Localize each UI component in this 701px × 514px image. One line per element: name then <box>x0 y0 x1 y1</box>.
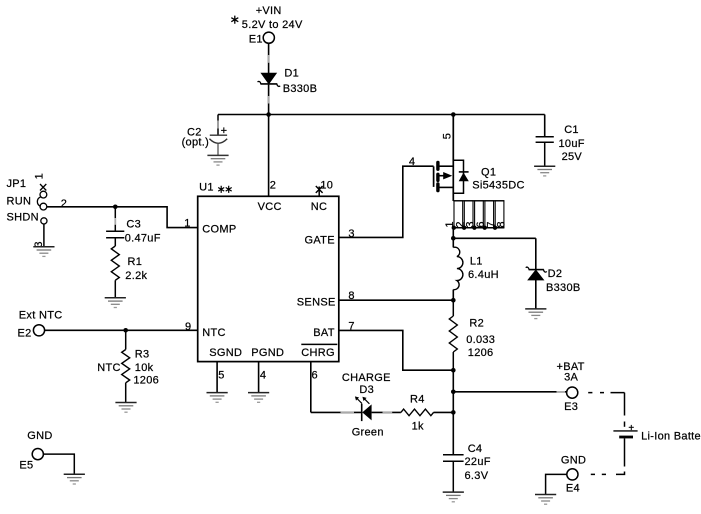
ground C2 <box>207 155 228 165</box>
wire BAT node down <box>452 370 454 412</box>
wire R2 to BAT node <box>452 352 454 370</box>
wire R4 to node <box>434 411 454 413</box>
pin circle 2 <box>40 203 47 210</box>
svg-text:U1: U1 <box>199 182 214 194</box>
svg-text:CHRG: CHRG <box>301 347 335 359</box>
resistor R4 <box>401 394 434 433</box>
svg-text:2.2k: 2.2k <box>125 270 147 282</box>
svg-text:E5: E5 <box>19 460 33 472</box>
wire D2 cathode stub <box>535 238 537 269</box>
node junction BAT <box>451 368 456 373</box>
svg-text:R4: R4 <box>410 394 425 406</box>
wire switch node to D2 <box>453 237 536 239</box>
wire sense node to R2 <box>452 300 454 316</box>
svg-text:9: 9 <box>185 321 191 333</box>
svg-text:VCC: VCC <box>258 201 282 213</box>
wire junction to R3 <box>125 330 127 349</box>
svg-text:6: 6 <box>312 370 318 382</box>
ground SGND <box>207 393 228 403</box>
node junction +BAT <box>451 390 456 395</box>
svg-text:5: 5 <box>441 133 453 139</box>
svg-text:7: 7 <box>348 320 354 332</box>
wire SENSE pin8 <box>339 299 454 301</box>
wire LED to R4 <box>372 411 401 413</box>
body arrow <box>439 175 444 177</box>
svg-text:R1: R1 <box>128 256 143 268</box>
gate bar <box>433 166 435 187</box>
svg-text:COMP: COMP <box>202 223 236 235</box>
svg-text:(opt.): (opt.) <box>182 136 209 148</box>
svg-text:1: 1 <box>34 173 46 179</box>
svg-text:CHARGE: CHARGE <box>342 372 391 384</box>
svg-text:6.4uH: 6.4uH <box>468 269 499 281</box>
wire E2 to NTC pin9 <box>45 329 198 331</box>
wire C3 to R1 <box>114 238 116 246</box>
note asterisk <box>231 16 238 24</box>
wire D2 anode to ground <box>535 280 537 309</box>
pin number labels fingers (rotated) <box>444 221 507 227</box>
ground R1 <box>105 298 126 308</box>
svg-text:Green: Green <box>352 426 384 438</box>
ground C4 <box>443 492 464 502</box>
wire rail corner to C2 <box>217 115 219 136</box>
svg-text:22uF: 22uF <box>465 456 491 468</box>
emission arrows <box>357 399 369 404</box>
main vertical source-drain line <box>452 115 454 202</box>
node +BAT label <box>557 361 585 384</box>
svg-text:B330B: B330B <box>546 282 581 294</box>
svg-text:+VIN: +VIN <box>256 5 282 17</box>
wire E3 dashed to battery <box>588 393 624 427</box>
svg-text:25V: 25V <box>562 151 583 163</box>
svg-text:2: 2 <box>61 198 67 210</box>
svg-text:0.033: 0.033 <box>466 334 495 346</box>
svg-text:RUN: RUN <box>7 195 32 207</box>
diode D1 <box>258 68 318 96</box>
drain connection <box>439 186 453 188</box>
body diode bracket <box>453 160 463 193</box>
svg-text:10uF: 10uF <box>559 138 585 150</box>
svg-text:5: 5 <box>218 369 224 381</box>
svg-text:3A: 3A <box>564 372 578 384</box>
wire E4 to ground <box>546 474 567 494</box>
svg-text:5.2V to 24V: 5.2V to 24V <box>242 19 303 31</box>
terminal E5 <box>19 449 43 472</box>
wire E1 to D1 <box>268 43 270 73</box>
svg-text:Si5435DC: Si5435DC <box>472 180 525 192</box>
wire R3 to ground <box>125 383 127 403</box>
capacitor C4 <box>443 443 491 482</box>
transistor Q1 <box>434 115 525 202</box>
no-connect X pin1 <box>40 184 46 191</box>
ground E4 <box>535 495 556 505</box>
wire RUN pin2 to COMP pin1 <box>47 207 198 228</box>
svg-text:1: 1 <box>184 217 190 229</box>
svg-text:C3: C3 <box>126 219 141 231</box>
wire +BAT <box>453 391 566 393</box>
svg-text:SHDN: SHDN <box>7 211 39 223</box>
wire R1 to ground <box>114 280 116 297</box>
wire SGND pin5 to ground <box>216 362 218 393</box>
capacitor C1 <box>536 124 585 163</box>
svg-text:D1: D1 <box>284 68 299 80</box>
svg-text:D2: D2 <box>548 268 563 280</box>
node junction switch node <box>451 236 456 241</box>
svg-text:+: + <box>628 423 634 434</box>
wire C1 to ground <box>544 142 546 166</box>
terminal E3 <box>564 387 578 413</box>
svg-text:E4: E4 <box>566 482 580 494</box>
battery Li-Ion <box>613 423 701 443</box>
svg-text:GND: GND <box>561 455 586 467</box>
svg-text:D3: D3 <box>359 384 374 396</box>
svg-text:C4: C4 <box>468 443 483 455</box>
terminal E1 <box>249 32 275 45</box>
jumper shunt arc <box>37 197 40 207</box>
svg-text:8: 8 <box>495 221 507 227</box>
pin circle 3 <box>41 218 47 224</box>
svg-text:B330B: B330B <box>283 83 318 95</box>
svg-text:E2: E2 <box>18 327 32 339</box>
diode D2 <box>526 267 581 294</box>
svg-text:GATE: GATE <box>305 235 335 247</box>
svg-text:6.3V: 6.3V <box>465 470 489 482</box>
svg-text:R3: R3 <box>135 349 150 361</box>
svg-text:L1: L1 <box>470 255 483 267</box>
wire E5 to ground <box>44 454 75 474</box>
svg-text:10: 10 <box>320 180 333 192</box>
svg-text:0.47uF: 0.47uF <box>125 232 161 244</box>
ground D2 <box>525 309 546 319</box>
terminal E4 <box>566 469 580 495</box>
terminal E2 <box>18 325 45 340</box>
no-connect X pin10 <box>316 186 323 193</box>
capacitor C2 <box>182 125 228 155</box>
svg-text:R2: R2 <box>469 318 484 330</box>
ground PGND <box>248 393 269 403</box>
svg-text:Li-Ion Battery: Li-Ion Battery <box>641 431 701 443</box>
svg-text:E1: E1 <box>249 33 263 45</box>
inductor L1 <box>453 238 499 300</box>
node junction E2/R3 <box>123 328 128 333</box>
ground C1 <box>534 166 555 176</box>
svg-text:BAT: BAT <box>313 327 334 339</box>
resistor R2 <box>449 316 495 359</box>
svg-text:Q1: Q1 <box>481 166 496 178</box>
svg-text:1206: 1206 <box>468 347 494 359</box>
pin 10 stub NC <box>318 187 320 197</box>
node junction rail/D1 <box>266 112 271 117</box>
wire GATE pin3 to Q1 gate <box>339 166 434 237</box>
svg-text:SENSE: SENSE <box>297 297 336 309</box>
svg-text:NC: NC <box>311 201 328 213</box>
svg-text:Ext NTC: Ext NTC <box>19 310 63 322</box>
wire VIN rail <box>218 114 545 116</box>
LED D3 <box>342 372 391 438</box>
svg-text:NTC: NTC <box>97 362 121 374</box>
wire drain to switch node <box>452 228 454 239</box>
wire C1 drop <box>544 115 546 137</box>
wire C4 to ground <box>452 461 454 492</box>
ground R3 <box>115 403 136 413</box>
wire CHRG pin6 <box>310 362 312 413</box>
wire VCC drop pin2 <box>268 115 270 197</box>
svg-text:8: 8 <box>348 290 354 302</box>
wire battery to E4 dashed <box>591 438 625 474</box>
svg-text:NTC: NTC <box>202 327 226 339</box>
svg-text:4: 4 <box>409 156 415 168</box>
Q1 drain finger pins <box>453 201 504 228</box>
connector JP1 <box>7 173 48 248</box>
svg-text:10k: 10k <box>135 362 154 374</box>
node junction rail/Q1 <box>451 112 456 117</box>
svg-text:1k: 1k <box>412 420 424 432</box>
wire node to C4 <box>452 412 454 454</box>
resistor R3 <box>97 349 159 387</box>
ground JP1 <box>33 247 54 257</box>
svg-text:SGND: SGND <box>209 347 242 359</box>
node +VIN label <box>242 5 303 31</box>
body diode <box>459 171 469 173</box>
node junction sense <box>451 298 456 303</box>
svg-text:3: 3 <box>348 228 354 240</box>
svg-text:PGND: PGND <box>251 347 284 359</box>
wire JP1 pin3 to ground <box>43 224 45 247</box>
wire pin6 to LED D3 <box>311 411 361 413</box>
IC U1 (charger controller) <box>198 182 339 362</box>
source connection <box>439 165 453 167</box>
ground E5 <box>64 474 85 484</box>
wire BAT pin7 <box>339 330 454 370</box>
node junction dots fingers <box>452 226 498 230</box>
resistor R1 <box>111 246 147 282</box>
svg-text:2: 2 <box>270 179 276 191</box>
svg-text:1206: 1206 <box>133 375 159 387</box>
svg-text:E3: E3 <box>564 401 578 413</box>
channel segments <box>436 162 439 190</box>
node junction RUN/C3 <box>113 205 118 210</box>
wire PGND pin4 to ground <box>258 362 260 393</box>
svg-text:4: 4 <box>260 369 266 381</box>
svg-text:C1: C1 <box>564 124 579 136</box>
pin circle 1 <box>40 191 47 198</box>
wire D1 to VIN rail <box>268 85 270 115</box>
svg-text:JP1: JP1 <box>7 178 27 190</box>
svg-text:GND: GND <box>27 430 52 442</box>
capacitor C3 <box>106 219 161 245</box>
wire junction to C3 <box>114 207 116 231</box>
node junction R4/C4 <box>451 410 456 415</box>
